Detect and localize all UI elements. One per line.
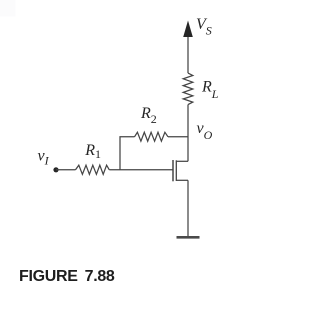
resistor R1 [76, 165, 110, 174]
wire source to ground [187, 180, 189, 236]
wire R1 to gate [109, 169, 172, 171]
terminal vI [53, 167, 58, 172]
wire RL to drain [187, 105, 189, 162]
svg-text:VS: VS [196, 16, 212, 38]
caption FIGURE 7.88 [19, 268, 115, 286]
supply arrow VS [183, 21, 193, 74]
wire R2 left segment [120, 137, 135, 170]
ground [177, 236, 200, 239]
resistor R2 [135, 132, 169, 141]
svg-text:vI: vI [38, 147, 50, 167]
svg-text:R2: R2 [140, 105, 157, 126]
svg-text:R1: R1 [84, 142, 101, 161]
resistor RL [183, 73, 193, 105]
node vO / wire R2 right segment [168, 136, 188, 138]
svg-text:vO: vO [197, 120, 213, 142]
wire vI to R1 [56, 169, 76, 171]
transistor MOSFET [173, 160, 188, 181]
svg-text:RL: RL [201, 79, 219, 102]
